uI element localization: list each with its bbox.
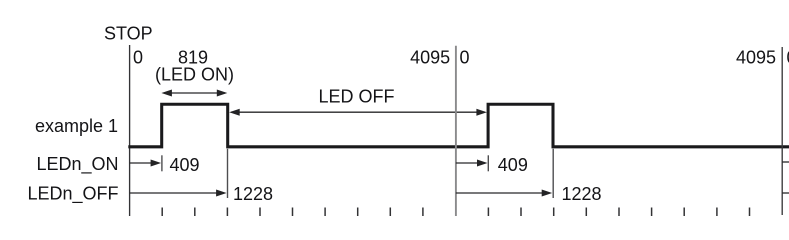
svg-text:(LED ON): (LED ON): [155, 64, 234, 84]
svg-text:1228: 1228: [233, 184, 273, 204]
tick at LED on edge period 2: [487, 155, 489, 171]
svg-text:4095: 4095: [410, 47, 450, 67]
period line 3: [781, 47, 783, 215]
tick at LED on edge period 1: [161, 155, 163, 171]
dimension double arrow LED OFF span: [229, 109, 487, 116]
tick at LED off edge period 2: [552, 149, 554, 198]
scale ticks period 2: [488, 208, 749, 217]
tick at LED off edge period 1: [227, 149, 229, 198]
dimension double arrow LED ON width: [161, 90, 227, 97]
svg-text:LED OFF: LED OFF: [318, 87, 394, 107]
period line 1 (count 0): [129, 45, 131, 216]
dimension arrow 409 period 3 stub: [782, 161, 789, 163]
dimension arrow 1228 period 1: [130, 190, 227, 197]
svg-text:STOP: STOP: [104, 24, 153, 44]
svg-text:LEDn_ON: LEDn_ON: [36, 154, 118, 175]
dimension arrow 1228 period 2: [456, 190, 552, 197]
waveform example 1: [128, 104, 789, 147]
svg-text:0: 0: [133, 47, 143, 67]
svg-text:0: 0: [460, 47, 470, 67]
svg-text:409: 409: [498, 155, 528, 175]
dimension arrow 409 period 2: [456, 160, 488, 167]
dimension arrow 1228 period 3 stub: [782, 192, 789, 194]
svg-text:example 1: example 1: [35, 116, 118, 136]
dimension arrow 409 period 1: [130, 160, 162, 167]
svg-text:4095: 4095: [736, 47, 776, 67]
svg-text:LEDn_OFF: LEDn_OFF: [27, 183, 118, 204]
scale ticks period 1: [162, 208, 423, 217]
period line 2: [455, 46, 457, 216]
svg-text:1228: 1228: [562, 184, 602, 204]
svg-text:409: 409: [170, 155, 200, 175]
